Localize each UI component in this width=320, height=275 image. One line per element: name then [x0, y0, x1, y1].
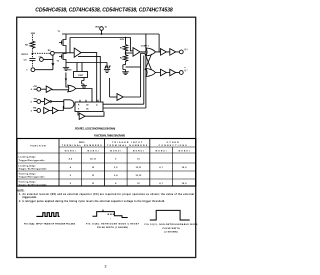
wire RC pin to comparator input	[54, 52, 74, 54]
pin RD reset input	[34, 109, 41, 113]
ground VSS left	[63, 63, 69, 71]
svg-text:12, 11: 12, 11	[90, 158, 97, 160]
wire divider tap to comparator	[126, 52, 133, 54]
svg-text:TERMINAL NUMBERS: TERMINAL NUMBERS	[107, 144, 148, 147]
svg-text:Trailing-Edge: Trailing-Edge	[19, 172, 37, 175]
svg-text:2. A retrigger pulse applied d: 2. A retrigger pulse applied during the …	[19, 200, 165, 203]
wire riser B2 to NOR2	[143, 56, 145, 105]
inverter INV B	[41, 98, 52, 104]
pin Qbar output terminal	[176, 71, 184, 75]
svg-text:+TR: +TR	[33, 86, 37, 88]
svg-text:CONNECTIONS: CONNECTIONS	[159, 145, 188, 147]
svg-text:FIG 10(A): INPUT TRAIN OF TRIG: FIG 10(A): INPUT TRAIN OF TRIGGER PULSES	[24, 223, 76, 226]
wire INV5 riser	[109, 78, 111, 97]
svg-text:Trigger/Retriggerable: Trigger/Retriggerable	[19, 159, 46, 162]
svg-text:CD54HC4538, CD74HC4538, CD54HC: CD54HC4538, CD74HC4538, CD54HCT4538, CD7…	[35, 8, 173, 14]
svg-text:2/3V: 2/3V	[120, 39, 125, 41]
wire C-node to discharge column	[43, 59, 53, 61]
svg-text:Leading-Edge: Leading-Edge	[19, 157, 37, 159]
comparator buffer A1	[74, 48, 81, 57]
latch cross wires	[145, 54, 152, 70]
svg-text:13, 12: 13, 12	[136, 175, 143, 177]
svg-text:NOTE:: NOTE:	[17, 190, 24, 192]
waveform figure 1: input pulse train	[36, 213, 59, 217]
wire M3 to riser	[126, 66, 141, 68]
transistor M1	[59, 34, 66, 50]
pin +TR input	[34, 87, 41, 91]
svg-text:trigger point.: trigger point.	[23, 196, 38, 199]
wire A1 output down	[81, 53, 97, 102]
latch box B2	[75, 102, 103, 112]
svg-text:3: 3	[105, 264, 107, 268]
NAND gate G2	[64, 100, 74, 108]
inverter INV6 below box	[78, 112, 85, 120]
transistor M3 with ground	[123, 63, 126, 72]
OR gate G1	[68, 85, 76, 92]
resistor R2	[123, 50, 127, 63]
wire INVC2 to NAND G2	[58, 106, 64, 110]
inverter INV A	[41, 86, 52, 92]
inverter Q chain 2	[166, 49, 175, 56]
svg-text:FIG 10(C): NON-RETRIGGERABLE M: FIG 10(C): NON-RETRIGGERABLE MODE	[145, 223, 199, 226]
transistor M2	[59, 50, 66, 63]
svg-text:Trigger/Retriggerable: Trigger/Retriggerable	[19, 176, 46, 179]
wire VDD bus2	[70, 38, 133, 51]
VDD pin terminal	[100, 27, 104, 35]
wire INV5 out to riser	[123, 96, 140, 98]
table body text	[19, 157, 188, 187]
svg-text:VSS: VSS	[67, 69, 72, 71]
NOR gate NOR2	[146, 69, 156, 77]
wire CX pin to discharge column	[35, 69, 53, 71]
inverter INV C2	[49, 107, 58, 113]
inverter Q chain 1	[156, 49, 167, 56]
svg-text:Leading-Edge: Leading-Edge	[19, 165, 37, 167]
svg-text:Trigger, No Retriggerable: Trigger, No Retriggerable	[19, 168, 48, 171]
svg-text:TERMINAL NUMBERS: TERMINAL NUMBERS	[62, 144, 103, 147]
svg-text:FIGURE 1. LOGIC DIAGRAM (1/2 S: FIGURE 1. LOGIC DIAGRAM (1/2 SHOWN)	[75, 128, 115, 131]
wire G1 second input from above	[66, 73, 69, 88]
one-shot control box B1	[74, 72, 88, 78]
resistor R1	[125, 38, 127, 45]
wire inv5 riser to cross	[141, 53, 145, 97]
svg-text:TRIGGER INPUT: TRIGGER INPUT	[112, 142, 143, 144]
svg-text:13, 11: 13, 11	[136, 167, 143, 169]
wire B2 right to latch riser	[103, 103, 144, 105]
svg-text:1. An external resistor (RX) a: 1. An external resistor (RX) and an exte…	[19, 193, 194, 196]
wire INVB to NAND G2	[52, 101, 65, 103]
svg-text:RC: RC	[48, 50, 52, 52]
wire bus1 corner to NOR1 output	[158, 34, 160, 52]
wire INV6 out	[85, 112, 104, 117]
page border frame	[17, 17, 196, 257]
wire B2 right to feedback riser	[103, 107, 146, 109]
svg-text:FUNCTION: FUNCTION	[31, 146, 46, 148]
inverter INV5	[110, 94, 124, 101]
transistor discharge arrow	[51, 63, 54, 66]
inverter INV C1	[44, 107, 50, 113]
node RC junction	[32, 53, 34, 55]
table header text	[31, 142, 190, 153]
svg-text:−TR: −TR	[33, 99, 37, 101]
wire dashed node to RX/CX pin	[32, 52, 50, 54]
svg-text:FIG 10(B): RETRIGGER MODE & RE: FIG 10(B): RETRIGGER MODE & RESET	[86, 223, 140, 225]
svg-text:VDD: VDD	[95, 27, 100, 29]
wire discharge vertical	[52, 55, 54, 69]
svg-text:Trigger, No Retriggerable: Trigger, No Retriggerable	[19, 184, 48, 187]
svg-text:PULSE WIDTH (1 SHOWN): PULSE WIDTH (1 SHOWN)	[97, 227, 128, 229]
pin Q output terminal	[176, 50, 184, 54]
svg-text:Trailing-Edge: Trailing-Edge	[19, 180, 37, 183]
waveform figure 3: non-retrigger mode pulse	[150, 210, 190, 220]
svg-text:PULSE WIDTH: PULSE WIDTH	[163, 228, 180, 230]
pulse glyph riser	[106, 63, 108, 69]
wire INVA to OR G1	[52, 89, 69, 91]
svg-text:COMP 1: COMP 1	[141, 46, 150, 48]
wire M2 drain right	[66, 62, 107, 64]
NOR gate NOR1	[146, 48, 156, 56]
schematic tiny labels	[22, 27, 188, 113]
wire bus2 drop x70	[69, 38, 71, 53]
pin C-node terminal	[40, 58, 44, 62]
svg-text:FUNCTIONAL TIMING DIAGRAMS: FUNCTIONAL TIMING DIAGRAMS	[94, 135, 125, 138]
wire latch feedback vertical	[145, 34, 147, 108]
pin CX terminal	[31, 68, 35, 72]
wire A1 lower tap down	[78, 56, 100, 102]
resistor RX (external, dashed)	[31, 35, 33, 42]
svg-text:OTHER: OTHER	[167, 142, 179, 144]
capacitor CX (external, dashed)	[31, 54, 33, 58]
wire COMP1 out to NOR1	[140, 51, 146, 53]
svg-text:7: 7	[187, 70, 188, 72]
svg-text:RD: RD	[33, 108, 37, 110]
waveform figure 2: retrigger mode pulse	[93, 210, 128, 218]
pin RX/CX terminal	[51, 51, 55, 55]
comparator COMP1	[133, 48, 140, 57]
wire G1 out down to B2	[76, 89, 92, 103]
transistor M4 below B1 with ground	[82, 78, 84, 86]
inverter Qbar chain 1	[156, 69, 167, 76]
notes	[17, 190, 194, 203]
svg-text:RX/CX: RX/CX	[22, 54, 29, 56]
table grid	[17, 139, 196, 187]
pin -TR input	[34, 100, 41, 104]
svg-text:VDD: VDD	[31, 33, 36, 35]
inverter Qbar chain 2	[166, 69, 175, 76]
svg-text:(2 SHOWN): (2 SHOWN)	[165, 231, 178, 233]
wire VDD bus1	[62, 33, 159, 35]
svg-text:6: 6	[187, 49, 188, 51]
wire G2 out to latch box	[74, 103, 75, 105]
